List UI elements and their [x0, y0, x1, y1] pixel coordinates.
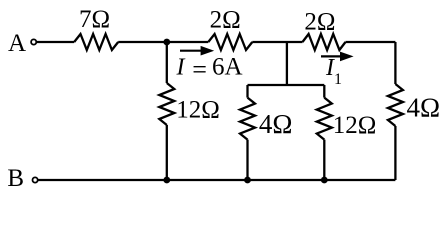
wire middle rail [248, 84, 325, 86]
resistor 7ohm horizontal [74, 34, 118, 50]
node junction dot bottom right (12ohm middle) [321, 177, 328, 184]
svg-text:12Ω: 12Ω [176, 97, 220, 124]
svg-text:7Ω: 7Ω [79, 6, 110, 33]
terminal B circle [33, 177, 38, 182]
svg-text:4Ω: 4Ω [259, 109, 293, 139]
arrow current I1 [321, 52, 354, 62]
resistor 12ohm middle vertical [317, 98, 332, 140]
wire top from 2ohm #1 to 2ohm #2 [252, 41, 302, 43]
svg-text:2Ω: 2Ω [210, 7, 241, 34]
wire bottom from B terminal to right corner [38, 179, 396, 181]
wire top from 7ohm to 2ohm #1 [118, 41, 208, 43]
wire 12ohm middle to bottom [323, 140, 325, 180]
terminal A circle [31, 39, 36, 44]
svg-text:I1: I1 [325, 55, 342, 88]
resistor 2ohm #2 horizontal [303, 34, 346, 50]
svg-text:A: A [8, 30, 26, 57]
resistor 2ohm #1 horizontal [208, 34, 252, 50]
wire node to 12ohm left [166, 42, 168, 83]
node junction dot bottom left (12ohm) [163, 177, 170, 184]
wire rail to 4ohm middle [246, 85, 248, 98]
wire top from 2ohm #2 to right corner [346, 41, 396, 43]
wire right vertical lower (4ohm right to bottom) [394, 126, 396, 180]
svg-text:6A: 6A [212, 54, 243, 81]
wire 12ohm left to bottom [166, 125, 168, 180]
svg-text:2Ω: 2Ω [304, 9, 335, 36]
wire rail to 12ohm middle [323, 85, 325, 98]
wire right vertical upper (corner to 4ohm right) [394, 42, 396, 84]
svg-text:B: B [7, 165, 24, 192]
svg-text:=: = [192, 55, 207, 84]
arrow current I [180, 46, 214, 56]
wire 4ohm middle to bottom [246, 140, 248, 180]
wire T-drop from top to middle rail [286, 42, 288, 85]
resistor 12ohm left vertical [159, 83, 174, 125]
svg-text:12Ω: 12Ω [333, 112, 377, 139]
node junction dot bottom middle (4ohm) [244, 177, 251, 184]
svg-text:4Ω: 4Ω [407, 92, 441, 122]
resistor 4ohm right vertical [388, 84, 403, 126]
wire top from A terminal to 7ohm [36, 41, 74, 43]
svg-text:I: I [176, 55, 186, 81]
resistor 4ohm middle vertical [240, 98, 255, 140]
node junction dot top (12ohm tap) [163, 39, 170, 46]
